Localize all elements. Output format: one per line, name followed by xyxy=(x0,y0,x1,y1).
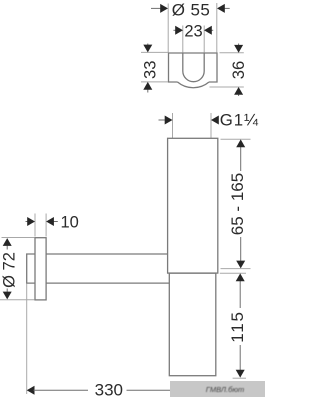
dim 65-165 bottom arrow xyxy=(236,261,245,269)
svg-text:36: 36 xyxy=(230,61,248,79)
wall stub pipe xyxy=(27,254,35,283)
dim 33 top arrow xyxy=(147,44,149,47)
extension line top (dim 65-165) xyxy=(221,138,251,140)
svg-text:G1¼: G1¼ xyxy=(220,111,259,130)
dim 65-165 top arrow xyxy=(236,139,245,147)
thread G1 1/4 right arrow xyxy=(211,116,219,125)
dim 55 right arrow xyxy=(223,7,230,9)
extension line bottom (dim 115) xyxy=(233,377,246,379)
dim 36 bottom arrow xyxy=(238,93,240,96)
dim 115 line upper segment xyxy=(239,281,241,309)
svg-text:Ø 55: Ø 55 xyxy=(172,1,210,20)
svg-text:ГМВЛ.бют: ГМВЛ.бют xyxy=(206,385,245,394)
extension line right (thread G1 1/4) xyxy=(210,113,212,138)
dim 72 bottom arrow xyxy=(6,289,8,293)
extension line left (dim 10) xyxy=(34,214,36,237)
extension line left (dim 55) xyxy=(167,4,169,53)
dim 115 top arrow xyxy=(236,273,245,281)
inlet pipe bottom line xyxy=(46,282,169,284)
dim 55 left arrow xyxy=(151,7,162,9)
dim 36 top arrow xyxy=(238,44,240,47)
svg-text:23: 23 xyxy=(184,22,202,40)
trap body lower outline xyxy=(169,273,216,376)
svg-text:10: 10 xyxy=(61,214,79,232)
escutcheon outline (top view) xyxy=(169,53,218,82)
extension line top (dim 115) xyxy=(220,272,246,274)
dim 115 line lower segment xyxy=(239,345,241,370)
svg-text:330: 330 xyxy=(95,380,123,399)
dim 10 right arrow xyxy=(52,221,58,223)
svg-text:115: 115 xyxy=(228,310,247,343)
watermark band xyxy=(170,381,265,397)
extension line left (thread G1 1/4) xyxy=(172,113,174,138)
dim 65-165 line upper segment xyxy=(240,146,242,171)
thread G1 1/4 left arrow xyxy=(159,119,167,121)
extension line top (dim Ø72) xyxy=(2,237,35,239)
extension line top (dim 36) xyxy=(220,52,244,54)
extension line bottom (dim 36) xyxy=(210,86,244,88)
extension line left (dim 23) xyxy=(182,26,184,53)
extension line right (dim 10) xyxy=(45,214,47,237)
wall flange plate xyxy=(35,238,46,300)
inlet pipe top line xyxy=(46,253,168,255)
dim 330 left arrow xyxy=(27,386,35,395)
extension line left (dim 330) xyxy=(26,284,28,395)
dim 10 left arrow xyxy=(26,221,29,223)
extension line bottom (dim 65-165) xyxy=(221,268,251,270)
pipe socket U cutout xyxy=(183,53,204,82)
extension line top (dim 33) xyxy=(141,51,168,53)
extension line bottom (dim Ø72) xyxy=(0,299,35,301)
svg-text:65 - 165: 65 - 165 xyxy=(228,173,247,235)
dim 330 line left segment xyxy=(34,389,89,391)
dim 72 top arrow xyxy=(6,245,8,250)
dim 330 line right segment xyxy=(127,389,172,391)
extension line bottom (dim 33) xyxy=(141,81,168,83)
dim 23 left arrow xyxy=(173,29,177,31)
dim 33 bottom arrow xyxy=(147,88,149,93)
extension line right (dim 23) xyxy=(203,26,205,53)
svg-text:Ø 72: Ø 72 xyxy=(1,252,19,288)
svg-text:33: 33 xyxy=(141,61,159,79)
dim 65-165 line lower segment xyxy=(240,237,242,262)
extension line right (dim 55) xyxy=(216,3,218,53)
pipe bulge arc on bottom edge xyxy=(178,82,210,88)
dim 115 bottom arrow xyxy=(236,370,245,378)
trap body upper outline xyxy=(168,138,218,273)
dim 23 right arrow xyxy=(210,29,213,31)
